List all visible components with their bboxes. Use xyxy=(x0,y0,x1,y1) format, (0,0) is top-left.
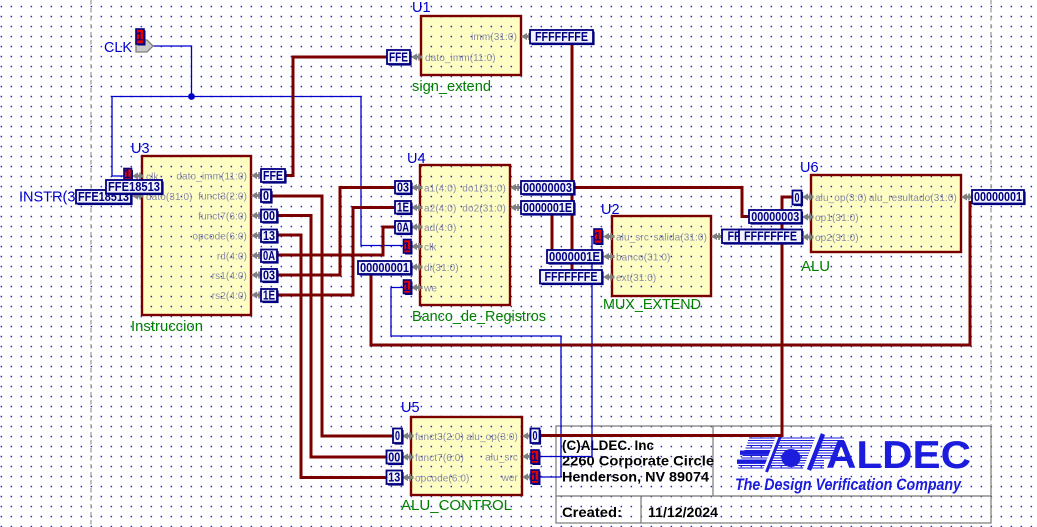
svg-text:0000001E: 0000001E xyxy=(523,201,572,215)
svg-text:alu_op(3:0): alu_op(3:0) xyxy=(815,193,867,204)
svg-text:banco(31:0): banco(31:0) xyxy=(616,253,670,264)
pin U2 salida(31:0) output xyxy=(711,233,723,240)
pin U4 do2(31:0) output xyxy=(510,204,522,211)
svg-text:do1(31:0): do1(31:0) xyxy=(462,184,506,195)
block U6 ALU xyxy=(811,175,961,252)
svg-text:00000003: 00000003 xyxy=(751,210,799,224)
pin U3 funct7(6:0) output xyxy=(251,212,263,219)
value box 0 on U6 alu_op xyxy=(793,191,804,207)
pin U4 a2(4:0) input xyxy=(411,204,423,211)
ALDEC logo bold bars xyxy=(740,451,773,455)
probe 1 on U4 clk xyxy=(403,239,412,254)
pin U1 imm(31:0) output xyxy=(521,33,533,40)
svg-text:ALU_CONTROL: ALU_CONTROL xyxy=(401,498,512,514)
svg-text:(C)ALDEC. Inc: (C)ALDEC. Inc xyxy=(562,438,654,453)
pin U2 alu_src input xyxy=(603,233,615,240)
pin U5 funct3(2:0) input xyxy=(402,432,414,439)
svg-text:11/12/2024: 11/12/2024 xyxy=(648,504,718,520)
wire CLK junction to U4 clk xyxy=(192,97,405,246)
svg-text:di(31:0): di(31:0) xyxy=(424,263,459,274)
value box FFFFFFFE on U1 imm xyxy=(530,30,595,45)
svg-text:1: 1 xyxy=(594,229,601,243)
svg-text:dato_imm(11:0): dato_imm(11:0) xyxy=(176,172,247,183)
svg-text:rs2(4:0): rs2(4:0) xyxy=(212,291,247,302)
svg-text:sign_extend: sign_extend xyxy=(412,79,491,95)
svg-text:do2(31:0): do2(31:0) xyxy=(462,204,506,215)
probe 1 on U5 wer xyxy=(531,470,541,485)
block U1 sign_extend xyxy=(421,16,521,75)
svg-text:MUX_EXTEND: MUX_EXTEND xyxy=(603,297,701,313)
svg-text:Created:: Created: xyxy=(562,504,622,520)
svg-text:The Design Verification Compan: The Design Verification Company xyxy=(735,476,962,494)
svg-text:1E: 1E xyxy=(397,201,409,215)
svg-text:00000003: 00000003 xyxy=(523,181,572,195)
svg-text:U5: U5 xyxy=(401,400,420,416)
svg-text:ALU: ALU xyxy=(801,259,830,275)
value box FFFFFFFE on U6 op2 (over) xyxy=(739,230,804,245)
wire wer U5 to U4 we xyxy=(391,288,561,478)
pin U4 do1(31:0) output xyxy=(510,184,522,191)
svg-text:op1(31:0): op1(31:0) xyxy=(815,213,859,224)
wire do1 U4 to U6 op1 xyxy=(574,188,749,217)
pin U3 dato(31:0) input xyxy=(132,192,144,199)
wire alu_op U5 to U6 xyxy=(539,197,793,436)
svg-text:0: 0 xyxy=(263,189,269,203)
svg-text:funct7(6:0): funct7(6:0) xyxy=(415,453,464,464)
block U5 ALU_CONTROL xyxy=(411,417,522,495)
wire alu_resultado U6 feedback to U4 di xyxy=(371,201,970,345)
svg-text:13: 13 xyxy=(388,471,400,485)
svg-text:we: we xyxy=(423,284,437,295)
svg-text:ALDEC: ALDEC xyxy=(826,434,971,477)
svg-text:00000001: 00000001 xyxy=(360,261,409,275)
svg-text:U4: U4 xyxy=(407,151,426,167)
svg-text:00: 00 xyxy=(388,450,400,464)
ALDEC logo stripes xyxy=(738,438,844,468)
svg-text:0: 0 xyxy=(533,429,538,443)
svg-text:03: 03 xyxy=(263,269,275,283)
svg-text:alu_op(3:0): alu_op(3:0) xyxy=(466,432,518,443)
svg-text:U6: U6 xyxy=(800,160,819,176)
svg-text:0A: 0A xyxy=(397,221,409,235)
svg-text:alu_resultado(31:0): alu_resultado(31:0) xyxy=(869,193,957,204)
block fills xyxy=(421,16,521,75)
pin U5 opcode(6:0) input xyxy=(402,474,414,481)
probe 1 on U4 we xyxy=(403,280,412,295)
svg-text:00: 00 xyxy=(263,209,275,223)
value box 0000001E on U2 banco xyxy=(547,250,604,265)
pin U5 wer output xyxy=(522,473,534,480)
value box 13 on U5 opcode xyxy=(387,471,404,486)
svg-text:1: 1 xyxy=(124,167,131,181)
value box 13 on U3 opcode xyxy=(261,229,279,244)
svg-text:1: 1 xyxy=(403,239,410,253)
svg-text:U2: U2 xyxy=(601,202,620,218)
svg-text:FFE18513: FFE18513 xyxy=(108,180,160,194)
pin U4 a1(4:0) input xyxy=(411,184,423,191)
svg-text:00000001: 00000001 xyxy=(974,190,1022,204)
svg-text:a2(4:0): a2(4:0) xyxy=(424,204,456,215)
svg-text:0A: 0A xyxy=(263,249,275,263)
svg-text:wer: wer xyxy=(501,473,519,484)
value box 0000001E on U4 do2 xyxy=(521,201,576,216)
value box 1E on U4 a2 xyxy=(395,201,413,216)
svg-text:2260 Corporate Circle: 2260 Corporate Circle xyxy=(562,454,715,469)
value box 0 on U5 funct3 xyxy=(393,429,404,445)
wire CLK junction to U3 clk xyxy=(112,97,192,177)
junction CLK net xyxy=(188,93,195,100)
pin U6 op1(31:0) input xyxy=(802,213,814,220)
svg-text:Banco_de_Registros: Banco_de_Registros xyxy=(412,309,546,325)
svg-text:13: 13 xyxy=(263,229,275,243)
probe 1 on CLK xyxy=(136,29,146,46)
pin U4 di(31:0) input xyxy=(411,263,423,270)
value box 00000003 on U6 op1 xyxy=(749,210,803,225)
value box 00 on U3 funct7 xyxy=(261,209,279,224)
pin U4 clk input xyxy=(411,243,423,250)
value box 00000001 on U6 alu_resultado xyxy=(972,190,1026,205)
block U4 Banco_de_Registros xyxy=(420,165,510,305)
wire do2 U4 to U2 banco xyxy=(551,213,554,250)
pin U1 dato_imm(11:0) input xyxy=(411,53,423,60)
value box FFFFFFFE on U2 salida (under) xyxy=(722,230,788,245)
wire dato_imm U3 to U1 xyxy=(285,57,387,176)
svg-text:opcode(6:0): opcode(6:0) xyxy=(193,232,247,243)
pin U5 alu_src output xyxy=(522,453,534,460)
ALDEC logo circle xyxy=(782,449,801,467)
svg-text:FFFFFFFE: FFFFFFFE xyxy=(535,30,588,44)
pin U4 ad(4:0) input xyxy=(411,223,423,230)
pin U3 opcode(6:0) output xyxy=(251,232,263,239)
wire alu_src U5 to U2 xyxy=(539,237,594,457)
svg-text:FFE: FFE xyxy=(263,169,283,183)
svg-text:CLK: CLK xyxy=(104,40,132,56)
pin U2 banco(31:0) input xyxy=(603,253,615,260)
value box 00000001 on U4 di xyxy=(358,261,413,276)
pin U3 clk input xyxy=(132,172,144,179)
pin U6 alu_resultado(31:0) output xyxy=(961,193,973,200)
svg-text:0000001E: 0000001E xyxy=(549,250,600,264)
value box FFE on U1 dato_imm xyxy=(387,50,412,66)
svg-text:a1(4:0): a1(4:0) xyxy=(424,184,456,195)
value box 0A on U4 ad xyxy=(395,221,413,236)
svg-text:FFFFFFFE: FFFFFFFE xyxy=(744,230,797,244)
value box 1E on U3 rs2 xyxy=(261,289,279,304)
svg-text:FFFFFFFE: FFFFFFFE xyxy=(545,270,598,284)
svg-text:0: 0 xyxy=(395,429,400,443)
pin U3 rd(4:0) output xyxy=(251,252,263,259)
page boundary dashed line right xyxy=(990,0,992,425)
value box 00000003 on U4 do1 xyxy=(521,181,576,196)
ALDEC logo slash gaps xyxy=(765,436,779,472)
svg-text:imm(31:0): imm(31:0) xyxy=(471,32,517,43)
svg-text:U3: U3 xyxy=(131,141,150,157)
svg-text:funct7(6:0): funct7(6:0) xyxy=(198,212,247,223)
svg-text:op2(31:0): op2(31:0) xyxy=(815,233,859,244)
wire imm U1 to U2 ext xyxy=(571,43,574,270)
value box 03 on U4 a1 xyxy=(395,181,413,196)
svg-text:ad(4:0): ad(4:0) xyxy=(424,223,456,234)
svg-text:Instruccion: Instruccion xyxy=(131,319,203,335)
svg-text:alu_src: alu_src xyxy=(485,453,518,464)
probe 1 on U3 clk xyxy=(124,167,133,181)
pin U5 funct7(6:0) input xyxy=(402,453,414,460)
value box FFFFFFFE on U2 ext xyxy=(540,270,604,285)
value box 0 on U5 alu_op xyxy=(531,429,542,445)
svg-text:1: 1 xyxy=(531,450,538,464)
wire rs1 U3 to U4 a1 xyxy=(276,188,396,276)
pin U3 rs2(4:0) output xyxy=(251,291,263,298)
block U3 Instruccion xyxy=(142,156,251,315)
title block frame xyxy=(556,426,991,523)
ALDEC logo slash strokes xyxy=(767,436,781,472)
pin U4 we input xyxy=(411,284,423,291)
value box 0 on U3 funct3 xyxy=(261,189,273,204)
svg-text:salida(31:0): salida(31:0) xyxy=(654,233,707,244)
svg-text:0: 0 xyxy=(795,191,800,205)
svg-text:03: 03 xyxy=(397,181,409,195)
svg-text:1: 1 xyxy=(403,280,410,294)
svg-text:alu_src: alu_src xyxy=(616,233,649,244)
block U2 MUX_EXTEND xyxy=(612,216,711,296)
wire rs2 U3 to U4 a2 xyxy=(276,208,396,296)
pin U3 funct3(2:0) output xyxy=(251,192,263,199)
svg-text:1E: 1E xyxy=(263,289,275,303)
svg-text:funct3(2:0): funct3(2:0) xyxy=(198,192,247,203)
svg-text:ext(31:0): ext(31:0) xyxy=(616,273,656,284)
value box 0A on U3 rd xyxy=(261,249,279,264)
pin U2 ext(31:0) input xyxy=(603,273,615,280)
svg-text:FFE: FFE xyxy=(389,50,408,64)
svg-text:rd(4:0): rd(4:0) xyxy=(217,252,247,263)
value box FFE on U3 dato_imm xyxy=(261,169,287,184)
port CLK terminal xyxy=(136,40,153,52)
wire funct3 U3 to U5 xyxy=(270,196,393,436)
svg-text:U1: U1 xyxy=(412,0,431,16)
svg-text:clk: clk xyxy=(424,243,437,254)
value box 03 on U3 rs1 xyxy=(261,269,279,284)
pin U3 rs1(4:0) output xyxy=(251,271,263,278)
value box 00 on U5 funct7 xyxy=(387,450,404,465)
pin U5 alu_op(3:0) output xyxy=(522,432,534,439)
value box FFE18513 on INSTR port xyxy=(76,190,133,205)
wire rd U3 to U4 ad xyxy=(276,227,396,255)
pin U3 dato_imm(11:0) output xyxy=(251,172,263,179)
page boundary dashed line left xyxy=(90,0,92,527)
pin U6 alu_op(3:0) input xyxy=(802,193,814,200)
svg-text:Henderson, NV 89074: Henderson, NV 89074 xyxy=(562,470,710,485)
value box FFE18513 on U3 dato xyxy=(106,180,164,195)
svg-text:funct3(2:0): funct3(2:0) xyxy=(415,432,464,443)
svg-text:opcode(6:0): opcode(6:0) xyxy=(415,474,469,485)
wire funct7 U3 to U5 xyxy=(276,216,387,458)
wire CLK to junction xyxy=(152,46,192,97)
svg-text:dato_imm(11:0): dato_imm(11:0) xyxy=(425,53,496,64)
svg-text:1: 1 xyxy=(531,470,538,484)
probe 1 on U5 alu_src xyxy=(531,450,541,465)
probe 1 on U2 alu_src xyxy=(594,229,604,245)
svg-text:1: 1 xyxy=(136,30,143,44)
pin U6 op2(31:0) input xyxy=(802,233,814,240)
wire opcode U3 to U5 xyxy=(276,235,387,478)
svg-text:rs1(4:0): rs1(4:0) xyxy=(212,271,247,282)
